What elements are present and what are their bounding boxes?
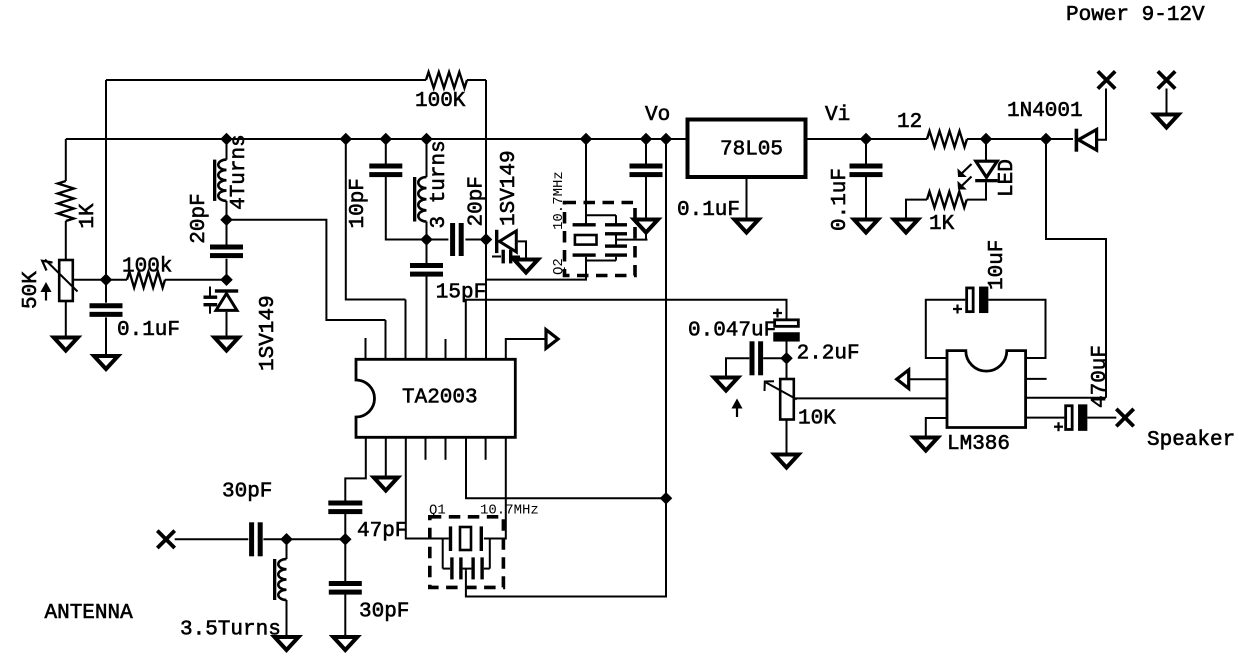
glyph up-arrow (10K wiper hint): [732, 400, 741, 418]
wire pin15 to ground: [385, 438, 387, 478]
svg-text:1K: 1K: [929, 213, 955, 236]
wire supply down to LM386 Vs: [1046, 139, 1106, 398]
svg-text:0.047uF: 0.047uF: [688, 320, 776, 343]
wire 3.5Turns to ground: [286, 600, 288, 637]
capacitor 0.1uF (Vo): [630, 164, 663, 178]
capacitor 30pF (antenna series): [249, 522, 263, 556]
node varicap right junction: [481, 234, 491, 244]
svg-text:50K: 50K: [20, 271, 43, 309]
wire bus to Q2 top lead: [585, 139, 587, 225]
label 3 turns: [428, 140, 451, 228]
svg-text:Vo: Vo: [645, 104, 670, 127]
svg-text:0.1uF: 0.1uF: [829, 168, 852, 231]
wire Q2 tap to ground: [616, 232, 648, 240]
svg-text:LED: LED: [996, 159, 1019, 197]
pin stub bottom 4: [425, 438, 427, 460]
node audio junction: [781, 353, 791, 363]
wire 78L05 ground pin: [746, 178, 748, 219]
wire bus drop x=346 to IC pin (stair): [346, 139, 406, 300]
ground below 30pF: [333, 637, 357, 650]
wire 0.1uF upper lead: [105, 280, 107, 303]
node bus/0.1uF-Vo junction: [641, 134, 651, 144]
wire 30pF right upper lead: [344, 539, 346, 581]
wire pin12 to Vo/tap node: [466, 438, 666, 498]
wire 0.1uF to ground: [105, 317, 107, 356]
capacitor 47pF: [328, 501, 362, 515]
label 1K LED: [929, 213, 955, 236]
wire feedback top rail: [106, 79, 486, 81]
wire bus to 4Turns: [226, 139, 228, 160]
wire 470uF to speaker: [1087, 417, 1116, 419]
terminal X power negative: [1158, 71, 1175, 88]
varicap 1SV149 (right): [492, 230, 520, 264]
label ANTENNA: [45, 602, 134, 625]
potentiometer 50K (tuning): [42, 260, 77, 338]
pin stub bottom 7: [485, 438, 487, 460]
label 10.7MHz Q1: [480, 503, 539, 519]
wire 10K wiper to LM386 input: [794, 397, 947, 399]
label Q2: [551, 258, 567, 275]
svg-text:Power 9-12V: Power 9-12V: [1066, 4, 1205, 27]
svg-text:10.7MHz: 10.7MHz: [480, 503, 539, 519]
svg-text:10K: 10K: [798, 408, 836, 431]
wire 2.2uF to node: [786, 342, 788, 359]
svg-text:1SV149: 1SV149: [498, 150, 521, 226]
label 1N4001: [1007, 100, 1083, 123]
wire 20pF to varicap node: [226, 259, 228, 280]
svg-text:30pF: 30pF: [359, 601, 409, 624]
label 100k: [122, 256, 172, 279]
wire 100k to varicap node: [165, 279, 227, 281]
svg-text:15pF: 15pF: [436, 282, 486, 305]
node varicap left junction: [221, 275, 231, 285]
svg-text:3.5Turns: 3.5Turns: [180, 619, 281, 642]
svg-text:Speaker: Speaker: [1147, 429, 1235, 452]
node wiper/0.1uF junction: [101, 275, 111, 285]
wire bus to 3 turns: [426, 139, 428, 177]
wire 4Turns to node: [226, 201, 228, 220]
wire diode to X terminal: [1097, 89, 1106, 140]
node bus/4Turns junction: [221, 134, 231, 144]
wire 15pF upper lead: [426, 240, 428, 264]
label 3.5Turns: [180, 619, 281, 642]
label 1SV149 right: [498, 150, 521, 226]
svg-text:20pF: 20pF: [188, 193, 211, 243]
node bus/3turns junction: [421, 134, 431, 144]
wire 1K to pot: [65, 221, 67, 260]
ground below 0.1uF Vi: [854, 220, 878, 233]
svg-text:1N4001: 1N4001: [1007, 100, 1083, 123]
label 470uF: [1089, 345, 1112, 408]
wire 0.1uF Vi to ground: [865, 176, 867, 220]
wire LM386 output to 470uF: [1026, 417, 1065, 419]
wire varicap to ground: [226, 312, 228, 338]
label 1SV149 left: [257, 295, 280, 371]
label 0.1uF Vi: [829, 168, 852, 231]
label Power 9-12V: [1066, 4, 1205, 27]
ground below LED 1K: [894, 220, 918, 233]
pin stub top1: [365, 338, 367, 359]
terminal X speaker: [1116, 409, 1133, 426]
wire audio out pin to 2.2uF: [466, 300, 787, 359]
capacitor 0.1uF (Vi): [850, 164, 883, 178]
wire 10pF upper lead: [385, 139, 387, 165]
wire pin2 up: [385, 320, 387, 359]
wire x666 drop from bus: [665, 139, 667, 498]
resistor 1K (AGC): [58, 181, 74, 221]
node bus/LED junction: [981, 134, 991, 144]
wire 4Turns node to IC pin (stair): [227, 220, 386, 320]
svg-text:3 turns: 3 turns: [428, 140, 451, 228]
ground shared 0.1uF/Q2 tap: [634, 220, 658, 233]
wire 0.1uF Vi upper lead: [865, 139, 867, 165]
node bus/x666 junction: [661, 134, 671, 144]
wire arrow to LM386 pin3: [909, 378, 947, 380]
label 10.7MHz Q2: [551, 171, 567, 230]
plus sign 470uF: [1054, 422, 1063, 431]
diode 1N4001: [1075, 129, 1097, 152]
label 2.2uF: [797, 343, 860, 366]
label 50K: [20, 271, 43, 309]
wire node to 0.047uF: [763, 357, 786, 359]
crystal Q1 internals: [443, 526, 490, 579]
label 20pF left: [188, 193, 211, 243]
wire 100K to varicap node (x=486 drop): [485, 80, 487, 240]
wire 0.1uF Vo to ground: [645, 176, 647, 220]
capacitor 470uF (speaker coupling): [1066, 404, 1088, 431]
label 47pF: [357, 520, 407, 543]
inductor 3.5Turns (antenna): [273, 559, 287, 600]
label 10uF: [986, 240, 1009, 290]
capacitor 2.2uF (audio coupling): [773, 320, 800, 342]
plus sign 2.2uF: [773, 309, 782, 318]
label 12: [897, 111, 922, 134]
plus sign 10uF: [953, 305, 962, 314]
svg-text:2.2uF: 2.2uF: [797, 343, 860, 366]
LED indicator: [958, 139, 998, 189]
node bus/Q2 junction: [581, 134, 591, 144]
svg-text:1K: 1K: [77, 203, 100, 229]
svg-text:0.1uF: 0.1uF: [677, 199, 740, 222]
node 4Turns bottom junction: [221, 215, 231, 225]
capacitor 20pF (coupling): [450, 223, 464, 256]
label 1K: [77, 203, 100, 229]
svg-text:47pF: 47pF: [357, 520, 407, 543]
potentiometer 10K (volume): [765, 358, 797, 454]
ground below left varicap: [215, 338, 239, 351]
wire 0.1uF Vo upper lead: [645, 139, 647, 165]
label 20pF mid: [466, 176, 489, 226]
label 30pF right: [359, 601, 409, 624]
regulator 78L05: [688, 120, 806, 178]
svg-text:20pF: 20pF: [466, 176, 489, 226]
wire 10uF loop left: [926, 300, 966, 358]
svg-text:Q2: Q2: [551, 258, 567, 275]
svg-text:ANTENNA: ANTENNA: [45, 602, 134, 625]
wire x666 to Q1 tap: [466, 498, 666, 596]
wire LED cathode to 1K: [967, 182, 986, 199]
svg-text:12: 12: [897, 111, 922, 134]
label 0.047uF: [688, 320, 776, 343]
ground right varicap: [514, 260, 538, 273]
wire LM386 Vs pin: [1026, 397, 1106, 399]
ground below 0.047uF: [714, 378, 738, 391]
wire X negative to ground: [1166, 89, 1168, 115]
node antenna coil junction: [281, 534, 291, 544]
wire 30pF to coil node: [263, 538, 286, 540]
label 4Turns: [228, 134, 251, 210]
label 30pF left: [222, 481, 272, 504]
wire coil node to 47pF node: [287, 538, 346, 540]
wire 1K to ground: [906, 200, 927, 220]
label Vi: [825, 104, 850, 127]
label Vo: [645, 104, 670, 127]
svg-text:Vi: Vi: [825, 104, 850, 127]
svg-text:470uF: 470uF: [1089, 345, 1112, 408]
wire x486 node to IC pin: [485, 240, 487, 360]
crystal Q2 internals: [573, 215, 627, 279]
inductor 4Turns (osc coil): [213, 160, 227, 201]
capacitor 10uF (gain): [967, 287, 989, 314]
node bus/0.1uF-Vi junction: [861, 134, 871, 144]
ground below 0.1uF: [94, 356, 118, 369]
svg-text:Q1: Q1: [429, 503, 446, 519]
IC TA2003: [356, 359, 515, 437]
wire pin14 to Q1 left: [406, 438, 449, 539]
label Q1: [429, 503, 446, 519]
svg-text:100k: 100k: [122, 256, 172, 279]
wire 78L05 output side: [808, 138, 928, 140]
wire 50K wiper to 100k: [73, 279, 127, 281]
svg-text:1SV149: 1SV149: [257, 295, 280, 371]
label Speaker: [1147, 429, 1235, 452]
pin stub LM386 bypass: [1026, 378, 1047, 380]
svg-text:100K: 100K: [415, 90, 466, 113]
IC LM386: [947, 351, 1026, 456]
label 100K: [415, 90, 466, 113]
wire antenna to 30pF: [175, 538, 249, 540]
wire 3 turns to tank node: [426, 222, 428, 240]
resistor 12 (supply): [927, 131, 967, 147]
wire 30pF right to ground: [344, 594, 346, 637]
ground below 50K pot: [54, 338, 78, 351]
pin stub top5: [445, 339, 447, 359]
wire Q2 bottom lead: [486, 279, 587, 281]
wire 47pF to antenna node: [344, 513, 346, 540]
wire 0.047uF to ground: [726, 358, 749, 377]
wire tank node to 20pF: [427, 239, 449, 241]
wire 12 to diode: [967, 138, 1073, 140]
wire pin16 to 47pF: [345, 438, 366, 501]
svg-text:10.7MHz: 10.7MHz: [551, 171, 567, 230]
wire 20pF upper lead: [226, 220, 228, 246]
crystal Q2 10.7MHz discriminator (dashed box): [565, 203, 636, 276]
wire IF out pin to arrow: [506, 339, 546, 359]
resistor 1K (LED): [927, 192, 967, 208]
svg-text:30pF: 30pF: [222, 481, 272, 504]
ground below 78L05: [735, 220, 759, 233]
capacitor 15pF: [410, 263, 443, 277]
wire 20pF to varicap node: [465, 239, 486, 241]
svg-text:10pF: 10pF: [347, 178, 370, 228]
wire x=106 top corner down: [105, 80, 107, 280]
ground below TA2003: [374, 478, 398, 491]
svg-text:LM386: LM386: [947, 433, 1010, 456]
svg-text:TA2003: TA2003: [402, 387, 478, 410]
resistor 100k (tuning voltage): [127, 272, 165, 288]
resistor 100K (feedback): [426, 72, 467, 88]
node 47pF/30pF junction: [340, 534, 350, 544]
pin stub bottom 5: [445, 438, 447, 460]
signal arrow input (from TA2003): [897, 370, 909, 389]
label 0.1uF: [117, 319, 180, 342]
label LED: [996, 159, 1019, 197]
wire pin10 to Q1 right: [484, 438, 506, 539]
capacitor 0.1uF (tuning filter): [90, 303, 123, 317]
wire 15pF to IC pin: [426, 276, 428, 359]
node bus/supply-down junction: [1041, 134, 1051, 144]
capacitor 30pF (antenna shunt): [329, 581, 362, 595]
wire pin3 up: [405, 300, 407, 360]
svg-text:10uF: 10uF: [986, 240, 1009, 290]
signal arrow out (to audio amp): [546, 330, 558, 349]
capacitor 20pF (left osc): [210, 245, 243, 259]
terminal X power positive: [1098, 71, 1115, 88]
ground below LM386: [914, 438, 938, 451]
label 0.1uF Vo: [677, 199, 740, 222]
wire 10uF loop right: [988, 300, 1045, 358]
node tap junction x666: [661, 493, 671, 503]
node tank junction: [421, 234, 431, 244]
wire supply bus: [66, 138, 686, 140]
wire LM386 ground pin: [926, 418, 947, 438]
ground below 3.5Turns: [275, 637, 299, 650]
label 10K: [798, 408, 836, 431]
capacitor 0.047uF (de-emphasis): [750, 341, 764, 375]
wire bus corner to 1K: [65, 139, 67, 181]
ground below 10K: [775, 455, 799, 468]
ground power negative: [1155, 115, 1179, 128]
varicap 1SV149 (left): [204, 287, 239, 314]
node bus/10pF junction: [381, 134, 391, 144]
svg-text:78L05: 78L05: [720, 139, 783, 162]
svg-text:4Turns: 4Turns: [228, 134, 251, 210]
inductor 3 turns (FM tank): [413, 177, 427, 222]
wire 10pF lead to tank node: [386, 176, 427, 240]
terminal X antenna: [157, 531, 174, 548]
label 10pF: [347, 178, 370, 228]
label 15pF: [436, 282, 486, 305]
glyph up-arrow (50K wiper hint): [41, 283, 50, 301]
node bus/x346 junction: [341, 134, 351, 144]
svg-text:0.1uF: 0.1uF: [117, 319, 180, 342]
wire coil upper lead: [286, 539, 288, 559]
capacitor 10pF (osc): [369, 164, 402, 178]
wire right varicap to ground: [518, 241, 526, 259]
crystal Q1 10.7MHz filter (dashed box): [430, 517, 504, 588]
